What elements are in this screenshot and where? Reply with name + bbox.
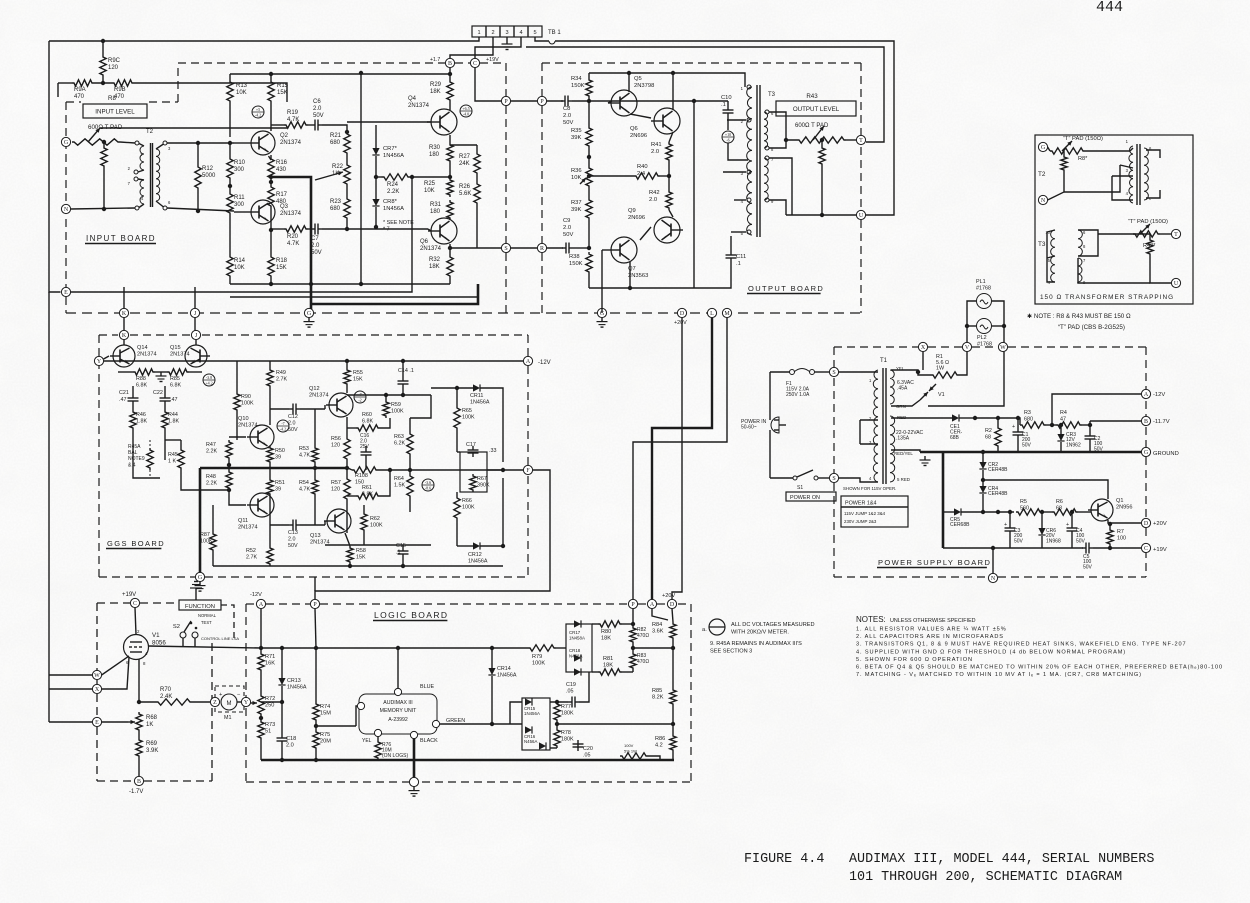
wire xyxy=(322,125,347,132)
logic board boundary xyxy=(245,708,247,782)
wire xyxy=(660,175,669,177)
resistor R71 xyxy=(258,652,264,672)
thick wire xyxy=(271,177,311,309)
svg-text:R108: R108 xyxy=(355,473,368,479)
svg-text:R36: R36 xyxy=(571,168,582,174)
resistor R38 xyxy=(586,252,592,274)
wire xyxy=(475,37,521,59)
svg-text:R85: R85 xyxy=(170,376,180,382)
wire xyxy=(556,722,558,728)
wire xyxy=(967,301,976,352)
power board boundary xyxy=(1145,401,1147,417)
svg-text:WITH 20KΩ/V METER.: WITH 20KΩ/V METER. xyxy=(731,630,789,636)
svg-text:Y: Y xyxy=(97,359,102,365)
svg-text:A: A xyxy=(1144,392,1149,398)
wire xyxy=(588,148,590,166)
wire xyxy=(322,228,428,230)
svg-text:4.7K: 4.7K xyxy=(287,241,299,247)
svg-text:+19V: +19V xyxy=(122,592,136,598)
svg-text:444: 444 xyxy=(1096,0,1123,16)
svg-text:2.7K: 2.7K xyxy=(246,555,257,561)
svg-text:R40: R40 xyxy=(637,164,648,170)
wire xyxy=(123,287,125,308)
resistor R53 xyxy=(312,446,318,464)
svg-text:68: 68 xyxy=(1056,506,1062,512)
wire xyxy=(270,155,272,157)
terminal N xyxy=(1038,195,1047,204)
wire xyxy=(281,702,283,734)
svg-text:2.4: 2.4 xyxy=(637,171,646,177)
svg-text:-11.7V: -11.7V xyxy=(1153,419,1170,425)
svg-text:2N1374: 2N1374 xyxy=(170,352,190,358)
wire xyxy=(992,325,1004,327)
wire xyxy=(480,388,503,462)
wire xyxy=(189,371,202,373)
node junction xyxy=(345,359,349,363)
svg-text:680: 680 xyxy=(330,140,341,146)
wire xyxy=(449,278,451,284)
svg-text:NOTES:: NOTES: xyxy=(856,615,886,624)
wire xyxy=(182,638,184,647)
svg-text:100: 100 xyxy=(1117,536,1126,542)
v1 box boundary xyxy=(97,780,134,782)
resistor R36 xyxy=(586,166,592,188)
ggs board boundary xyxy=(130,334,190,336)
node junction xyxy=(671,722,675,726)
node junction xyxy=(227,488,231,492)
svg-text:7. MATCHING - Vₑ MATCHED TO W: 7. MATCHING - Vₑ MATCHED TO WITHIN 10 MV… xyxy=(856,672,1142,678)
wire xyxy=(556,647,564,649)
wire xyxy=(1047,230,1055,232)
wire xyxy=(229,436,246,438)
resistor strap leg xyxy=(1147,238,1153,256)
svg-text:C14 .1: C14 .1 xyxy=(398,368,414,374)
svg-text:+: + xyxy=(1004,522,1007,528)
resistor R2 xyxy=(995,426,1001,448)
wire xyxy=(602,249,608,251)
svg-text:R86: R86 xyxy=(655,736,665,742)
terminal C xyxy=(1141,543,1150,552)
wire xyxy=(982,470,984,486)
output board boundary xyxy=(860,63,862,137)
svg-text:R4: R4 xyxy=(1060,410,1067,416)
wire xyxy=(672,318,682,600)
svg-text:3: 3 xyxy=(505,30,508,36)
diode CR5 xyxy=(954,508,961,515)
wire xyxy=(181,470,229,490)
svg-text:C20: C20 xyxy=(583,746,593,752)
svg-text:TEST: TEST xyxy=(201,620,212,625)
ground xyxy=(199,582,201,586)
svg-text:CR18: CR18 xyxy=(569,648,581,653)
wire xyxy=(1047,232,1055,282)
node junction xyxy=(667,174,671,178)
svg-text:S2: S2 xyxy=(173,624,180,630)
capacitor C2 xyxy=(1085,435,1096,437)
transistor Q13 xyxy=(327,509,351,533)
diode CR13 xyxy=(278,678,285,685)
wire xyxy=(363,532,365,545)
power board boundary xyxy=(1008,346,1146,348)
svg-text:S: S xyxy=(832,370,835,376)
wire xyxy=(564,647,566,649)
svg-text:Q14: Q14 xyxy=(137,345,148,351)
resistor R49 xyxy=(267,368,273,388)
svg-text:R54: R54 xyxy=(299,480,309,486)
svg-text:T1: T1 xyxy=(880,358,888,364)
jumper box POWER xyxy=(841,496,908,527)
node junction xyxy=(401,393,405,397)
node junction xyxy=(269,175,273,179)
svg-text:39K: 39K xyxy=(571,135,581,141)
svg-text:CER68B: CER68B xyxy=(950,522,970,528)
switch box FUNCTION xyxy=(179,600,221,610)
capacitor C10 xyxy=(723,109,734,111)
wire xyxy=(769,112,797,140)
wire xyxy=(230,296,478,298)
ground xyxy=(601,318,603,322)
resistor R69 xyxy=(136,738,142,758)
wire xyxy=(118,371,133,373)
wire xyxy=(94,82,112,84)
node junction xyxy=(501,544,505,548)
svg-text:R7: R7 xyxy=(1117,529,1124,535)
resistor R26 xyxy=(474,182,480,205)
wire xyxy=(592,623,598,625)
svg-text:W: W xyxy=(94,673,100,679)
svg-text:ALL DC VOLTAGES MEASURED: ALL DC VOLTAGES MEASURED xyxy=(731,622,815,628)
wire xyxy=(770,477,793,479)
feedthrough marker xyxy=(277,420,289,432)
svg-text:D: D xyxy=(670,602,675,608)
wire xyxy=(630,114,651,118)
wire xyxy=(680,73,745,87)
svg-text:U: U xyxy=(1174,281,1179,287)
wire xyxy=(476,145,478,152)
terminal B xyxy=(134,776,143,785)
svg-text:6. BETA OF Q4 & Q5 SHOULD BE: 6. BETA OF Q4 & Q5 SHOULD BE MATCHED TO … xyxy=(856,665,1223,671)
resistor R13 xyxy=(227,80,233,103)
resistor R86 xyxy=(670,734,676,752)
wire xyxy=(547,100,563,102)
svg-text:180K: 180K xyxy=(561,711,574,717)
wire xyxy=(270,74,272,80)
svg-text:R: R xyxy=(540,246,544,252)
node junction xyxy=(196,141,200,145)
wire xyxy=(1098,233,1150,235)
wire xyxy=(260,716,262,720)
wire xyxy=(779,424,786,426)
wire xyxy=(48,292,50,722)
ggs board boundary xyxy=(98,335,100,577)
wire xyxy=(728,143,748,160)
terminal G xyxy=(1038,142,1047,151)
wire xyxy=(622,623,633,625)
wire xyxy=(135,608,136,635)
svg-text:FUNCTION: FUNCTION xyxy=(185,604,215,610)
node junction xyxy=(965,324,969,328)
node junction xyxy=(269,282,273,286)
resistor R25 xyxy=(447,178,453,197)
resistor R50 xyxy=(267,446,273,464)
node junction xyxy=(692,99,696,103)
wire xyxy=(526,47,884,142)
terminal D xyxy=(677,308,686,317)
wire xyxy=(1077,282,1079,283)
svg-text:UNLESS OTHERWISE SPECIFIED: UNLESS OTHERWISE SPECIFIED xyxy=(890,618,976,624)
svg-text:G: G xyxy=(307,311,312,317)
wire xyxy=(629,262,631,288)
switch S1 xyxy=(793,476,797,480)
wire xyxy=(669,132,673,142)
ground xyxy=(195,588,197,600)
node junction xyxy=(448,246,452,250)
node junction xyxy=(631,646,635,650)
node junction xyxy=(401,564,405,568)
svg-text:“T” PAD (CBS B-2G525): “T” PAD (CBS B-2G525) xyxy=(1058,324,1125,331)
output board boundary xyxy=(541,253,543,313)
svg-text:R73: R73 xyxy=(265,722,275,728)
capacitor C15 xyxy=(398,550,409,552)
wire xyxy=(308,228,311,230)
diode CR7 xyxy=(372,148,379,155)
node junction xyxy=(102,207,106,211)
power board boundary xyxy=(1145,528,1147,540)
svg-text:2.0: 2.0 xyxy=(286,743,294,749)
wire xyxy=(138,732,140,738)
svg-text:N: N xyxy=(991,576,996,582)
svg-text:-1.7V: -1.7V xyxy=(129,789,143,795)
svg-text:N458A: N458A xyxy=(569,654,582,659)
svg-text:.135A: .135A xyxy=(896,435,910,441)
svg-text:-8.6: -8.6 xyxy=(425,486,431,491)
wire xyxy=(456,520,458,546)
wire xyxy=(324,521,326,525)
svg-text:#1768: #1768 xyxy=(977,342,992,348)
rail top xyxy=(589,72,680,74)
diode CR12 xyxy=(473,542,480,549)
svg-text:390K: 390K xyxy=(477,483,490,489)
node junction xyxy=(820,213,824,217)
wire xyxy=(1150,256,1171,283)
wire xyxy=(1064,165,1120,192)
node junction xyxy=(269,228,273,232)
wire xyxy=(1060,425,1062,434)
capacitor C1 xyxy=(1013,431,1024,433)
svg-text:Q5: Q5 xyxy=(634,76,642,82)
svg-text:-6: -6 xyxy=(726,138,729,143)
svg-text:Q13: Q13 xyxy=(310,533,321,539)
terminal U xyxy=(856,210,865,219)
svg-text:+20V: +20V xyxy=(662,593,675,599)
svg-text:S1: S1 xyxy=(797,485,803,491)
svg-text:10K: 10K xyxy=(236,90,247,96)
wire xyxy=(1120,165,1133,168)
svg-text:R72: R72 xyxy=(265,696,275,702)
resistor R54 xyxy=(312,478,318,496)
capacitor C16 xyxy=(361,451,372,453)
logic board boundary xyxy=(245,604,247,698)
svg-text:1N456A: 1N456A xyxy=(470,400,490,406)
wire xyxy=(1047,256,1055,258)
svg-text:6.8K: 6.8K xyxy=(362,419,373,425)
wire xyxy=(632,609,634,626)
svg-text:180K: 180K xyxy=(561,737,574,743)
svg-text:-7: -7 xyxy=(281,421,284,426)
wire xyxy=(376,176,382,178)
svg-text:+10: +10 xyxy=(725,132,731,137)
node junction xyxy=(996,416,1000,420)
svg-text:C6: C6 xyxy=(313,99,321,105)
resistor R45 xyxy=(178,448,184,470)
wire xyxy=(1048,147,1050,151)
resistor R90 xyxy=(234,392,240,412)
wire xyxy=(346,361,348,368)
diode CR4 xyxy=(979,486,986,493)
diode CR2 xyxy=(979,462,986,469)
svg-text:D: D xyxy=(680,311,685,317)
node junction xyxy=(137,700,141,704)
power board boundary xyxy=(928,346,962,348)
node junction xyxy=(1059,423,1063,427)
svg-text:+19V: +19V xyxy=(1153,547,1167,553)
wire xyxy=(511,247,537,249)
wire xyxy=(450,37,493,59)
wire xyxy=(57,83,59,97)
wire xyxy=(1009,512,1011,524)
svg-text:R51: R51 xyxy=(275,480,285,486)
wire xyxy=(212,505,214,532)
svg-text:560: 560 xyxy=(1020,506,1029,512)
terminal S xyxy=(829,473,838,482)
svg-text:R44: R44 xyxy=(168,412,178,418)
svg-text:C12: C12 xyxy=(288,414,298,420)
svg-text:2: 2 xyxy=(491,30,494,36)
meter M1 xyxy=(215,686,244,712)
wire xyxy=(167,142,234,144)
transistor Q6 xyxy=(654,108,680,134)
wire xyxy=(456,388,458,406)
svg-text:470Ω: 470Ω xyxy=(637,659,649,665)
wire xyxy=(997,448,999,452)
feedthrough marker xyxy=(203,374,215,386)
svg-text:R41: R41 xyxy=(651,142,662,148)
svg-text:R25: R25 xyxy=(424,181,436,187)
svg-text:1N456A: 1N456A xyxy=(383,153,404,159)
capacitor C19 xyxy=(571,697,573,708)
capacitor C5 xyxy=(1085,543,1087,554)
svg-text:.47: .47 xyxy=(119,397,127,403)
wire xyxy=(103,168,105,209)
wire xyxy=(132,405,134,410)
svg-text:R15: R15 xyxy=(277,83,289,89)
v1 box boundary xyxy=(140,602,179,604)
resistor R19 xyxy=(284,122,308,128)
svg-text:“T” PAD (150Ω): “T” PAD (150Ω) xyxy=(1128,219,1168,225)
svg-text:R19: R19 xyxy=(287,110,299,116)
ggs board boundary xyxy=(527,476,529,577)
potentiometer input pad xyxy=(72,139,120,145)
ggs board boundary xyxy=(99,334,118,336)
power board boundary xyxy=(833,483,835,577)
svg-text:680: 680 xyxy=(330,206,341,212)
svg-text:R77: R77 xyxy=(561,704,571,710)
svg-text:CR12: CR12 xyxy=(468,552,482,558)
svg-text:CR11: CR11 xyxy=(470,393,483,399)
terminal D xyxy=(1141,518,1150,527)
wire xyxy=(409,498,411,512)
wire xyxy=(197,190,199,211)
wire xyxy=(194,287,196,308)
svg-text:CER48B: CER48B xyxy=(988,467,1008,473)
svg-text:8056: 8056 xyxy=(152,639,166,646)
svg-text:CR13: CR13 xyxy=(287,678,301,684)
wire xyxy=(491,648,493,668)
svg-text:GROUND: GROUND xyxy=(1153,451,1179,457)
wire xyxy=(668,162,670,176)
svg-text:R79: R79 xyxy=(532,654,542,660)
wire xyxy=(992,301,1004,342)
node junction xyxy=(345,130,349,134)
wire xyxy=(271,124,284,126)
wire xyxy=(487,469,503,471)
svg-text:150K: 150K xyxy=(569,261,583,267)
svg-text:T2: T2 xyxy=(146,129,154,135)
wire xyxy=(1109,523,1111,528)
svg-text:15K: 15K xyxy=(276,265,287,271)
resistor R3 xyxy=(1020,422,1046,428)
capacitor C22 xyxy=(160,397,171,399)
svg-text:15K: 15K xyxy=(353,377,363,383)
svg-text:5. SHOWN FOR 600 Ω OPERATION: 5. SHOWN FOR 600 Ω OPERATION xyxy=(856,657,973,663)
svg-text:5000: 5000 xyxy=(202,173,216,179)
svg-text:230V JUMP 2&3: 230V JUMP 2&3 xyxy=(844,519,877,524)
wire xyxy=(821,140,823,146)
svg-text:(ON LOGS): (ON LOGS) xyxy=(382,753,408,759)
wire xyxy=(457,545,473,547)
diode CR1 xyxy=(952,414,959,421)
svg-text:2.2K: 2.2K xyxy=(387,189,399,195)
node junction xyxy=(671,71,675,75)
node junction xyxy=(448,72,452,76)
wire xyxy=(365,446,367,448)
wire xyxy=(269,388,271,425)
resistor R75 xyxy=(313,730,319,750)
svg-text:SEE SECTION 3: SEE SECTION 3 xyxy=(710,649,752,655)
terminal X xyxy=(918,342,927,351)
wire xyxy=(672,752,674,760)
resistor R48 xyxy=(226,470,232,490)
svg-text:2N956: 2N956 xyxy=(1116,505,1132,511)
svg-text:“T” PAD (150Ω): “T” PAD (150Ω) xyxy=(1063,136,1103,142)
wire xyxy=(347,394,431,396)
wire xyxy=(281,686,283,702)
svg-text:3.9K: 3.9K xyxy=(146,748,158,754)
terminal G xyxy=(304,308,313,317)
feedthrough marker xyxy=(422,479,434,491)
wire xyxy=(375,207,377,227)
transistor Q4 xyxy=(431,109,457,135)
wire xyxy=(120,142,135,143)
wire xyxy=(269,361,271,368)
varistor V1 xyxy=(920,392,928,400)
resistor R64 xyxy=(407,474,413,498)
transformer strap T3 winding xyxy=(1051,230,1055,282)
svg-text:-4.0: -4.0 xyxy=(463,112,469,117)
svg-text:C18: C18 xyxy=(286,736,296,742)
svg-text:Q11: Q11 xyxy=(238,518,248,524)
v1 box boundary xyxy=(96,727,98,781)
